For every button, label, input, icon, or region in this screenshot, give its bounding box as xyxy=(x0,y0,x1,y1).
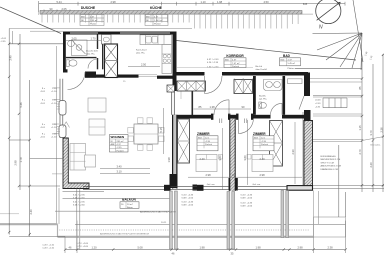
east wall upper + lower xyxy=(304,73,310,97)
svg-text:-2.61: -2.61 xyxy=(40,137,46,139)
facade piers south xyxy=(164,185,171,191)
svg-text:5.41 / +2.35: 5.41 / +2.35 xyxy=(182,194,194,196)
svg-text:5.41 / +2.35: 5.41 / +2.35 xyxy=(241,202,253,204)
svg-text:5.44: 5.44 xyxy=(56,0,62,4)
top dimension line 2 xyxy=(44,10,78,14)
svg-text:2.36: 2.36 xyxy=(380,127,384,133)
svg-text:SPLITT 5 CM: SPLITT 5 CM xyxy=(321,162,334,164)
svg-text:3.40: 3.40 xyxy=(116,164,122,168)
svg-text:ABF: ABF xyxy=(111,143,116,146)
right terrace rect xyxy=(314,217,346,237)
right dim verticals xyxy=(295,54,383,217)
svg-text:Parkett: Parkett xyxy=(205,143,212,146)
svg-text:6.08 / +2.60: 6.08 / +2.60 xyxy=(73,197,85,199)
X wardrobe corridor right xyxy=(234,80,253,94)
WOHNEN box xyxy=(110,135,129,153)
casement windows west xyxy=(59,101,66,116)
svg-text:1.20 / +1.10: 1.20 / +1.10 xyxy=(42,244,54,246)
svg-text:1.20 / +1.10: 1.20 / +1.10 xyxy=(42,248,54,250)
svg-text:ABGRENZUNG STADTTEILPLATTE IM: ABGRENZUNG STADTTEILPLATTE IM BEREICH xyxy=(100,232,150,235)
svg-text:-2.35: -2.35 xyxy=(1,41,7,43)
svg-text:1.10: 1.10 xyxy=(200,0,206,4)
svg-text:1.78 / +2.05: 1.78 / +2.05 xyxy=(76,246,88,248)
svg-text:5.41 / +2.35: 5.41 / +2.35 xyxy=(182,201,194,203)
bad fixtures xyxy=(259,79,302,109)
beds xyxy=(196,155,273,172)
kitchen right wall xyxy=(173,32,177,92)
main walls (dark) xyxy=(63,32,177,92)
L-wall west (living sw corner) xyxy=(63,138,89,189)
thin wall below NE wardrobe xyxy=(172,92,175,115)
svg-text:1.38: 1.38 xyxy=(209,105,215,109)
svg-text:2.40: 2.40 xyxy=(259,157,265,161)
svg-text:+1.10: +1.10 xyxy=(51,103,57,105)
svg-text:2.38: 2.38 xyxy=(327,245,333,249)
balcony texts xyxy=(73,183,261,224)
interior dimension lines xyxy=(66,40,302,190)
svg-text:-2.61: -2.61 xyxy=(40,91,46,93)
balcony slab lines xyxy=(55,46,346,224)
svg-text:1.15: 1.15 xyxy=(358,125,362,131)
left window sill text stacks xyxy=(40,88,57,139)
svg-text:1.343 m²: 1.343 m² xyxy=(154,19,163,22)
abgrenzung dashed line xyxy=(57,229,310,231)
corridor bottom / bedroom top wall xyxy=(172,115,211,119)
dining table + chairs xyxy=(134,124,158,144)
svg-text:845: 845 xyxy=(303,2,308,6)
bad left wall xyxy=(253,76,256,115)
property boundary polyline xyxy=(0,7,356,60)
svg-text:2.40: 2.40 xyxy=(199,157,205,161)
kitchen counters xyxy=(140,35,172,74)
svg-text:2.98: 2.98 xyxy=(110,0,116,4)
entry side text stack xyxy=(315,100,321,109)
svg-text:6.41 / +2.35: 6.41 / +2.35 xyxy=(73,194,85,196)
dusche south wall xyxy=(63,69,68,72)
svg-text:-2.35: -2.35 xyxy=(117,147,123,149)
svg-text:1.30 / +2.61: 1.30 / +2.61 xyxy=(207,67,219,69)
svg-text:6.08 / +2.60: 6.08 / +2.60 xyxy=(73,204,85,206)
svg-text:N: N xyxy=(319,25,323,31)
svg-text:3.10: 3.10 xyxy=(116,170,122,174)
top exterior wall xyxy=(63,32,177,35)
svg-text:WOHNEN: WOHNEN xyxy=(111,135,125,139)
svg-text:Platten: Platten xyxy=(154,22,162,25)
svg-text:KORRIDOR: KORRIDOR xyxy=(226,54,244,58)
svg-text:KÜCHE: KÜCHE xyxy=(150,5,163,10)
svg-text:Gel. var.: Gel. var. xyxy=(207,183,216,186)
svg-text:7.07 m²: 7.07 m² xyxy=(232,62,240,65)
svg-text:2.50: 2.50 xyxy=(141,62,147,66)
door swing arcs xyxy=(68,59,305,134)
left wall upper block xyxy=(63,32,66,73)
bottom dimension chain xyxy=(65,249,346,251)
niche box top xyxy=(102,35,112,45)
X wardrobe zimmer1 xyxy=(178,119,190,163)
svg-text:20 m²: 20 m² xyxy=(127,203,133,206)
svg-text:Dusche befl.: Dusche befl. xyxy=(86,51,99,53)
kitchen room texts xyxy=(86,50,267,101)
svg-text:5.08 / +2.60: 5.08 / +2.60 xyxy=(241,205,253,207)
corridor/bad top wall xyxy=(177,72,205,76)
svg-text:Grenzabst.: Grenzabst. xyxy=(370,144,381,147)
compass north xyxy=(316,0,341,24)
svg-text:+2.61: +2.61 xyxy=(1,38,7,40)
neighbour building outline xyxy=(39,4,64,15)
line under tick row xyxy=(9,28,192,30)
svg-text:5.08: 5.08 xyxy=(137,245,143,249)
door jambs corridor xyxy=(211,114,213,120)
terrain thick lines xyxy=(0,224,314,237)
balcony support columns xyxy=(170,191,289,250)
svg-text:2.40: 2.40 xyxy=(8,55,12,61)
svg-text:abst. Flä.: abst. Flä. xyxy=(86,53,95,56)
left dimension chains xyxy=(9,29,65,237)
svg-text:2.98: 2.98 xyxy=(205,173,211,177)
svg-text:BODENBELAG: BODENBELAG xyxy=(321,155,336,158)
X wardrobe living NE xyxy=(167,85,175,92)
svg-text:-2.35: -2.35 xyxy=(261,141,267,143)
svg-text:6.41 / +2.35: 6.41 / +2.35 xyxy=(73,201,85,203)
svg-text:5.08 / +2.60: 5.08 / +2.60 xyxy=(241,197,253,199)
window lines in top wall xyxy=(70,32,170,34)
svg-text:Parkett: Parkett xyxy=(232,65,239,68)
svg-text:4.50: 4.50 xyxy=(263,0,269,4)
svg-text:DÄMMUNG 6 CM: DÄMMUNG 6 CM xyxy=(321,168,339,171)
svg-text:3.70: 3.70 xyxy=(369,130,373,136)
boundary fan top right xyxy=(313,0,364,70)
right note text block xyxy=(321,155,341,171)
svg-text:2.05: 2.05 xyxy=(71,36,77,40)
svg-text:ABGRENZUNG STADTTEILPLATTE: ABGRENZUNG STADTTEILPLATTE xyxy=(140,211,176,214)
interior partitions upper-left block xyxy=(66,35,103,70)
svg-text:1.20: 1.20 xyxy=(91,245,97,249)
svg-text:1.98: 1.98 xyxy=(217,0,223,4)
west facade window xyxy=(60,79,63,138)
svg-text:2.98: 2.98 xyxy=(14,160,18,166)
vertical double lines below plan xyxy=(65,221,346,253)
svg-text:-2.61: -2.61 xyxy=(40,127,46,129)
right side walkway lines xyxy=(310,79,384,224)
south facade window lines xyxy=(83,186,287,189)
svg-text:-2.35: -2.35 xyxy=(205,141,211,143)
neighbour wall hatched band xyxy=(40,11,302,15)
svg-text:10.11: 10.11 xyxy=(161,222,167,224)
svg-text:4.26 / -2.35: 4.26 / -2.35 xyxy=(207,62,219,64)
svg-text:1.70: 1.70 xyxy=(90,36,96,40)
svg-text:±0.00: ±0.00 xyxy=(315,100,321,102)
svg-text:-2.61: -2.61 xyxy=(40,103,46,105)
svg-text:1.98: 1.98 xyxy=(255,245,261,249)
svg-text:1.98: 1.98 xyxy=(199,245,205,249)
svg-text:2.70: 2.70 xyxy=(358,149,362,155)
X wardrobe corridor left xyxy=(177,81,206,91)
hatched pier X (kitchen) xyxy=(105,44,118,78)
svg-text:Koch-Insel: Koch-Insel xyxy=(136,50,147,52)
entry steps xyxy=(323,98,347,108)
svg-text:ZIMMER: ZIMMER xyxy=(253,132,266,136)
svg-text:5.08 / +2.60: 5.08 / +2.60 xyxy=(182,204,194,206)
svg-text:opt. Flä.: opt. Flä. xyxy=(259,98,267,101)
svg-text:1.98: 1.98 xyxy=(167,157,171,163)
svg-text:4.37 / +2.61: 4.37 / +2.61 xyxy=(207,59,219,61)
svg-text:5.15: 5.15 xyxy=(159,127,163,133)
svg-text:5.45 m²: 5.45 m² xyxy=(288,62,296,65)
svg-text:Parkett: Parkett xyxy=(117,149,124,152)
svg-text:Bä-Lüf: Bä-Lüf xyxy=(256,66,263,68)
svg-text:NATURSTEIN 2 CM: NATURSTEIN 2 CM xyxy=(321,158,341,161)
facade tick row below band xyxy=(42,14,298,29)
living furniture xyxy=(70,98,106,170)
svg-text:Beton: Beton xyxy=(127,206,133,209)
svg-text:+1.10: +1.10 xyxy=(51,137,57,139)
svg-text:5.41 / +2.35: 5.41 / +2.35 xyxy=(241,194,253,196)
svg-text:+1.10: +1.10 xyxy=(51,127,57,129)
svg-text:3.60: 3.60 xyxy=(218,155,222,161)
svg-text:ZIMMER: ZIMMER xyxy=(197,132,210,136)
svg-text:2.40: 2.40 xyxy=(29,209,33,215)
fixtures dusche/wc xyxy=(66,40,87,66)
svg-text:2.98: 2.98 xyxy=(259,173,265,177)
svg-text:281 m²: 281 m² xyxy=(117,140,124,143)
svg-text:Platten: Platten xyxy=(288,67,296,70)
svg-text:Platten: Platten xyxy=(90,22,98,25)
svg-text:BAD: BAD xyxy=(283,54,291,58)
top dimension line 1 xyxy=(39,1,345,12)
bad/vestibule wall xyxy=(283,76,286,115)
svg-text:Gel. var.: Gel. var. xyxy=(253,183,262,186)
svg-text:Parkett: Parkett xyxy=(261,143,268,146)
svg-text:1.78: 1.78 xyxy=(19,157,23,163)
svg-text:-2.35: -2.35 xyxy=(315,107,321,109)
svg-text:DUSCHE: DUSCHE xyxy=(81,6,96,10)
living north wall segs xyxy=(96,75,139,78)
central bedroom wall (gray core) xyxy=(230,119,236,192)
X wardrobe zimmer2 xyxy=(270,121,283,167)
svg-text:abst. Flä.: abst. Flä. xyxy=(136,52,145,55)
svg-text:+2.61: +2.61 xyxy=(315,103,321,105)
svg-text:5.08 / +2.60: 5.08 / +2.60 xyxy=(182,197,194,199)
svg-text:1.78 / +2.05: 1.78 / +2.05 xyxy=(76,243,88,245)
svg-text:über Dachfl.: über Dachfl. xyxy=(256,68,268,71)
svg-text:ABDICHTUNG 2 CM: ABDICHTUNG 2 CM xyxy=(321,165,341,168)
svg-text:2.98: 2.98 xyxy=(297,245,303,249)
svg-text:3.60: 3.60 xyxy=(243,155,247,161)
svg-text:2.20: 2.20 xyxy=(369,162,373,168)
svg-text:5.46: 5.46 xyxy=(19,102,23,108)
svg-text:2.30: 2.30 xyxy=(291,149,295,155)
svg-text:+1.10: +1.10 xyxy=(51,91,57,93)
svg-text:Bä-Wa: Bä-Wa xyxy=(259,96,266,98)
